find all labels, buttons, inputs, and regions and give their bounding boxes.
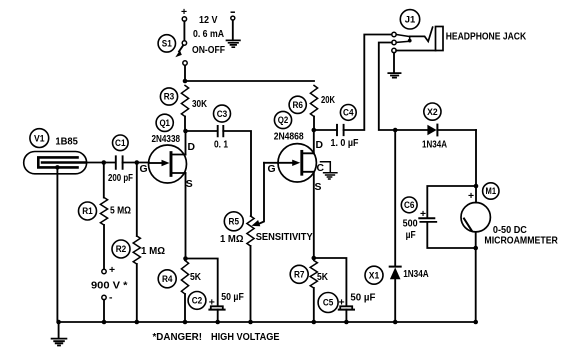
label X2 [424,103,441,120]
label V1 [30,129,49,148]
svg-text:R1: R1 [82,206,93,216]
svg-text:12 V: 12 V [199,15,218,26]
transistor Q2 2N4868 [278,144,316,182]
ground [227,40,240,47]
svg-text:M1: M1 [486,186,497,196]
svg-text:50 µF: 50 µF [221,292,244,303]
svg-text:S: S [186,179,193,190]
label R3 [160,88,177,105]
svg-text:2N4868: 2N4868 [274,132,304,143]
wire [217,310,219,322]
node: tube cathode tap [55,165,60,170]
battery terminal + [181,7,187,41]
resistor R3 [181,85,188,116]
label C3 [214,105,231,122]
R5 wiper from Q2 gate [260,163,265,224]
node: top rail junction [183,79,188,84]
node [215,320,220,325]
node: Q1 drain junction [183,129,188,134]
svg-text:C5: C5 [323,298,334,308]
battery terminal to ground [231,12,235,40]
label Q2 [274,111,291,128]
node: meter bottom junction [473,246,478,251]
svg-text:0. 6 mA: 0. 6 mA [193,29,224,40]
wire: Q2 drain to C4 [314,129,337,131]
tube V1 [24,152,87,174]
wire: drain to C3 [186,130,218,132]
wire: top supply rail [185,65,314,81]
battery 900V terminal + [102,265,115,276]
svg-text:SENSITIVITY: SENSITIVITY [256,232,313,243]
label R6 [289,96,306,113]
svg-text:30K: 30K [192,99,207,110]
node: Q2 drain junction [312,128,317,133]
meter M1 [461,191,490,232]
node: meter top junction [474,184,479,189]
label R7 [290,265,308,283]
wire: J1 ring contact down [379,43,395,131]
potentiometer R5 [247,216,254,246]
node: bus right end [473,320,478,325]
node: R1 tap [102,160,107,165]
svg-text:V1: V1 [34,133,45,143]
capacitor C1 [116,156,123,169]
wire [345,310,347,322]
capacitor C5 electrolytic [339,298,355,310]
svg-text:500: 500 [403,219,418,230]
svg-text:C2: C2 [192,296,203,306]
wire: bottom ground bus [59,321,476,323]
diode X1 1N34A [390,130,401,322]
svg-text:+: + [109,265,115,276]
svg-text:1N34A: 1N34A [403,269,429,280]
svg-text:R6: R6 [292,100,303,110]
wire: tube anode to C1 [86,162,115,164]
svg-text:1 MΩ: 1 MΩ [141,246,165,257]
wire: Q2 gate to wiper [264,162,278,164]
ground [52,322,67,346]
svg-text:MICROAMMETER: MICROAMMETER [484,235,558,246]
label X1 [365,266,383,284]
wire: Q1 drain up [185,131,187,155]
svg-text:5 MΩ: 5 MΩ [110,206,131,217]
wire: Q2 drain up [313,130,315,153]
svg-text:+: + [420,209,426,220]
wire: C4 to J1 tip contact [344,35,392,131]
svg-text:R4: R4 [162,274,173,284]
svg-text:µF: µF [406,230,416,241]
label J1 [400,10,419,29]
label C4 [340,105,356,121]
battery 900V terminal - [102,293,113,304]
svg-text:0-50 DC: 0-50 DC [493,225,527,236]
capacitor C4 [337,125,344,135]
case ground [321,162,337,179]
svg-text:5K: 5K [317,272,328,283]
svg-text:J1: J1 [405,15,416,25]
svg-text:X2: X2 [427,107,438,117]
svg-text:C4: C4 [343,108,354,118]
label R4 [158,270,176,288]
svg-text:1N34A: 1N34A [422,140,447,151]
svg-text:HIGH VOLTAGE: HIGH VOLTAGE [211,332,280,343]
svg-text:D: D [316,140,324,151]
svg-text:S: S [315,182,322,193]
svg-text:R3: R3 [164,92,175,102]
label S1 [158,35,175,52]
svg-text:S1: S1 [162,39,172,49]
wire: meter bottom [475,232,477,322]
label M1 [483,183,499,199]
capacitor C3 [218,126,224,136]
svg-text:Q2: Q2 [278,115,289,125]
wire: tube cathode down to bus [56,167,58,322]
svg-text:900 V *: 900 V * [91,281,129,292]
wire: C3 to R5 [223,131,251,216]
resistor R4 [181,261,188,295]
node [102,320,107,325]
svg-text:R2: R2 [116,244,127,254]
node: R4 bottom [183,320,188,325]
wire: Q2 source down [313,172,315,258]
label C2 [188,292,206,310]
wire: Q1 source down [185,173,187,259]
svg-text:R5: R5 [229,217,240,227]
svg-text:1. 0 µF: 1. 0 µF [331,138,359,149]
transistor Q1 2N4338 [149,145,187,183]
wire: Q2 source junction to C5 [314,258,347,306]
node [312,320,317,325]
switch S1 [175,41,187,65]
wire: R4 junction to C2 [186,259,218,306]
node: R4 top junction [183,256,188,261]
svg-text:0. 1: 0. 1 [214,140,228,151]
resistor R6 [310,85,317,116]
resistor R1 [103,163,105,198]
svg-text:C6: C6 [404,200,415,210]
diode X2 1N34A [395,125,476,136]
label C5 [318,293,338,313]
node: R2 tap [135,160,140,165]
resistor R2 [136,163,138,237]
node [135,320,140,325]
ground [388,73,400,78]
capacitor C2 electrolytic [209,298,225,310]
svg-text:C1: C1 [115,138,126,148]
wire [184,117,186,132]
svg-text:ON-OFF: ON-OFF [192,45,225,56]
node: X1/X2 junction [393,128,398,133]
svg-text:*DANGER!: *DANGER! [153,332,203,343]
svg-text:+: + [468,191,474,202]
resistor R7 [310,261,317,289]
label R2 [112,240,130,258]
svg-text:2N4338: 2N4338 [152,134,181,145]
svg-text:Q1: Q1 [159,118,170,128]
node: bus left [56,320,61,325]
svg-text:G: G [140,164,148,175]
node [393,320,398,325]
svg-text:C3: C3 [217,109,228,119]
svg-text:-: - [109,293,113,304]
wire: J1 sleeve to ground [393,53,395,73]
svg-text:+: + [339,298,345,309]
jack J1 [392,27,443,53]
svg-text:HEADPHONE JACK: HEADPHONE JACK [446,31,527,42]
wire: C1 to Q1 gate [123,162,149,164]
label C6 [401,197,417,213]
node [344,320,349,325]
label R1 [79,202,97,220]
svg-text:D: D [188,142,196,153]
svg-text:5K: 5K [190,272,201,283]
svg-text:G: G [268,164,276,175]
svg-text:1B85: 1B85 [55,137,78,148]
label C1 [113,135,129,151]
svg-text:R7: R7 [294,270,305,280]
svg-text:50 µF: 50 µF [350,293,375,304]
capacitor C6 electrolytic [419,186,476,248]
svg-text:20K: 20K [321,95,335,106]
svg-text:X1: X1 [369,270,380,280]
wire: X2 to meter [475,130,477,203]
svg-text:200 pF: 200 pF [108,173,133,184]
label R5 [224,212,243,231]
node [248,320,253,325]
label Q1 [156,114,173,131]
svg-text:+: + [209,298,215,309]
svg-text:1 MΩ: 1 MΩ [220,234,244,245]
node: Q2 source junction [312,256,317,261]
wire [103,300,105,322]
